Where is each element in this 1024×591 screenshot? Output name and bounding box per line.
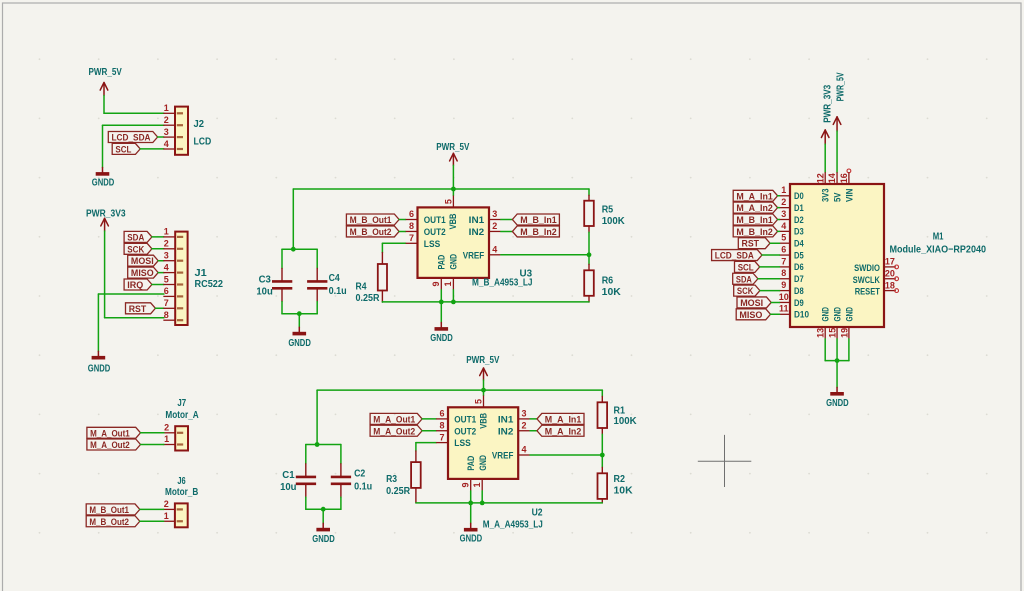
svg-text:PWR_3V3: PWR_3V3 [86,209,126,220]
wire C3 top lead [281,249,283,268]
label SCK (M1) [734,285,760,296]
capacitor C1 10u [280,464,316,497]
wire SCK to M1 pin [760,290,780,292]
wire gnd bus (U3) [382,301,589,303]
wire to GNDD (U3) [440,302,442,323]
svg-text:D1: D1 [794,203,804,214]
svg-text:R6: R6 [602,275,614,286]
svg-text:J1: J1 [195,268,208,279]
svg-text:0.1u: 0.1u [354,482,372,493]
svg-text:C4: C4 [329,273,341,284]
resistor R1 100K [598,397,638,435]
label SCK (J1) [124,243,152,254]
svg-text:M_A_A4953_LJ: M_A_A4953_LJ [483,520,543,531]
wire J1 pin 6 to GNDD [98,294,163,351]
label MISO (J1) [128,267,159,278]
svg-text:D3: D3 [794,227,804,238]
svg-text:3: 3 [781,209,786,219]
connector J6 Motor_B [163,476,198,527]
op-amp U2 M_A_A4953_LJ [436,395,543,530]
svg-text:2: 2 [164,499,169,509]
svg-text:D10: D10 [794,310,809,321]
svg-text:M_B_A4953_LJ: M_B_A4953_LJ [472,277,533,288]
svg-text:MOSI: MOSI [740,298,763,308]
wire PWR_5V to M1 pin 14 [836,131,838,172]
svg-text:5: 5 [443,199,453,204]
svg-text:PAD: PAD [466,456,477,471]
svg-text:GNDD: GNDD [88,364,111,375]
junction C3 C4 top [291,247,296,252]
svg-text:OUT2: OUT2 [454,426,476,437]
svg-text:3: 3 [521,409,526,419]
svg-text:10: 10 [779,292,789,302]
capacitor C2 0.1u [331,464,372,497]
wire M_B_Out2 to OUT2 [399,230,406,232]
svg-text:100K: 100K [614,416,638,427]
svg-text:9: 9 [781,280,786,290]
wire M_A_Out2 to J7 pin 1 [141,444,164,446]
svg-text:GNDD: GNDD [826,398,849,409]
wire C3 bottom lead [281,302,283,314]
svg-text:LCD: LCD [194,137,212,148]
label SDA (J1) [124,231,152,242]
power flag PWR_5V (U3) [436,142,469,165]
svg-text:Motor_A: Motor_A [165,410,198,421]
svg-text:C2: C2 [354,469,366,480]
label IRQ (J1) [124,279,152,290]
label SDA (M1) [733,273,758,284]
module M1 Module_XIAO−RP2040 [779,172,987,339]
svg-text:D6: D6 [794,262,804,273]
svg-text:4: 4 [164,262,169,272]
svg-text:11: 11 [779,304,789,314]
svg-text:1: 1 [164,103,169,113]
svg-text:M_B_In1: M_B_In1 [520,215,557,225]
svg-text:VREF: VREF [463,250,485,261]
label M_A_Out1 (U2) [370,413,422,424]
wire GND pin to gnd bus [452,290,454,302]
wire IN2 to M_B_In2 [501,230,513,232]
wire IN2 to M_A_In2 [530,430,537,432]
svg-text:PWR_5V: PWR_5V [89,67,122,78]
wire gnd bus (U2) [416,502,602,504]
svg-text:0.1u: 0.1u [329,286,347,297]
junction C3 C4 gnd [297,311,302,316]
wire SCL to J2 pin 4 [140,148,164,150]
op-amp U3 M_B_A4953_LJ [406,196,533,290]
svg-text:9: 9 [431,281,441,286]
label M_B_Out1 (J6) [86,504,140,515]
svg-text:PWR_5V: PWR_5V [835,72,846,101]
svg-text:5: 5 [781,233,786,243]
svg-text:2: 2 [781,197,786,207]
no-connect VIN pin 16 [847,169,851,173]
svg-text:RST: RST [129,304,147,314]
svg-text:18: 18 [885,280,895,290]
junction VREF R5 R6 [587,252,592,257]
svg-text:J6: J6 [177,476,186,487]
svg-text:SDA: SDA [736,274,752,284]
svg-text:D9: D9 [794,298,804,309]
svg-text:20: 20 [885,269,895,279]
svg-text:D0: D0 [794,191,804,202]
label SCL (M1) [735,261,760,272]
wire PWR_3V3 to M1 pin 12 [824,144,826,172]
svg-text:SWCLK: SWCLK [853,275,880,286]
wire PAD pin to gnd bus [440,290,442,302]
svg-text:13: 13 [816,328,826,338]
svg-text:PWR_3V3: PWR_3V3 [822,84,833,122]
svg-text:LSS: LSS [424,239,440,250]
wire PWR_5V bus (U3) [293,188,589,190]
label MOSI (J1) [128,255,159,266]
label MISO (M1) [736,309,770,320]
svg-text:100K: 100K [602,216,626,227]
svg-text:4: 4 [781,221,786,231]
svg-text:7: 7 [164,298,169,308]
svg-text:1: 1 [164,227,169,237]
resistor R2 10K [598,467,634,503]
ground GNDD (M1) [826,387,849,408]
svg-text:M_A_In1: M_A_In1 [545,414,582,424]
svg-text:10u: 10u [256,286,272,297]
wire C4 bottom lead [316,302,318,314]
wire C4 top lead [316,249,318,268]
svg-text:GNDD: GNDD [460,534,483,545]
label M_A_Out2 (U2) [370,425,422,436]
junction PAD gnd [439,300,444,305]
ground GNDD (J1) [88,351,111,374]
label M_B_Out1 (U3) [346,214,399,225]
wire C1 C2 bottom bus [306,508,341,510]
no-connect RESET pin 18 [895,289,899,293]
svg-text:4: 4 [492,245,497,255]
wire PWR_5V stem to bus [452,165,454,195]
svg-text:R4: R4 [356,281,367,292]
ground GNDD (U2) [460,523,483,544]
wire R5 to VREF [588,232,590,255]
wire SCK to J1 pin [152,248,164,250]
label M_B_In1 (U3) [512,214,559,225]
svg-text:2: 2 [164,239,169,249]
svg-text:MISO: MISO [131,268,154,278]
svg-text:8: 8 [409,221,414,231]
svg-text:D8: D8 [794,286,804,297]
svg-text:8: 8 [164,310,169,320]
svg-text:SCK: SCK [127,244,144,254]
svg-text:M_A_In2: M_A_In2 [545,426,582,436]
svg-text:6: 6 [409,209,414,219]
wire to GNDD (C3 C4) [298,314,300,328]
label M_B_In2 (M1) [733,226,777,237]
wire M_B_Out1 to OUT1 [399,219,406,221]
svg-text:PWR_5V: PWR_5V [466,355,499,366]
svg-text:0.25R: 0.25R [386,486,411,497]
svg-text:OUT2: OUT2 [424,227,446,238]
wire R1 to VREF [601,434,603,455]
svg-text:2: 2 [164,115,169,125]
wire M1 pin 19 to gnd bus [848,339,850,361]
svg-text:GND: GND [821,307,832,322]
svg-text:1: 1 [781,185,786,195]
svg-text:8: 8 [439,420,444,430]
svg-text:IN2: IN2 [469,227,485,238]
svg-text:2: 2 [521,420,526,430]
svg-text:D4: D4 [794,239,804,250]
wire SDA to J1 pin [152,236,164,238]
power flag PWR_5V (M1) [833,72,846,131]
wire VREF to R2 [601,455,603,467]
resistor R3 0.25R [386,451,421,503]
wire R4 bottom to gnd bus [381,301,383,303]
svg-text:M_B_In2: M_B_In2 [520,227,557,237]
svg-text:GND: GND [448,254,459,270]
svg-text:VBB: VBB [478,413,489,429]
junction M1 gnd [835,358,840,363]
svg-text:M_B_In1: M_B_In1 [736,215,772,225]
wire M_B_In2 to M1 pin [778,230,780,232]
capacitor C4 0.1u [307,268,347,301]
svg-text:8: 8 [781,268,786,278]
label M_A_In2 (U2) [537,425,584,436]
connector J2 LCD [163,103,211,155]
wire M_B_Out1 to J6 pin 2 [140,508,164,510]
svg-text:10u: 10u [280,482,296,493]
wire VREF to R6 [588,255,590,264]
svg-text:C3: C3 [259,275,272,286]
label LCD_SDA (M1) [712,250,762,261]
wire LCD_SDA to M1 pin [762,254,780,256]
wire RST to M1 pin [770,242,780,244]
svg-text:9: 9 [460,482,470,487]
label M_A_In1 (M1) [733,190,777,201]
svg-text:M1: M1 [933,232,944,243]
wire MISO to J1 pin [158,272,164,274]
svg-text:M_A_Out2: M_A_Out2 [90,440,130,450]
wire SCL to M1 pin [760,266,780,268]
svg-text:SCK: SCK [737,286,754,296]
wire IRQ to J1 pin [152,284,164,286]
svg-text:3: 3 [164,127,169,137]
crosshair cursor [698,435,752,487]
svg-text:7: 7 [409,233,414,243]
no-connect SWCLK pin 20 [895,277,899,281]
svg-text:D5: D5 [794,250,804,261]
svg-text:Motor_B: Motor_B [165,487,198,498]
power flag PWR_5V (J2) [89,67,122,95]
wire C2 bottom lead [340,497,342,509]
ground GNDD (C3 C4) [288,327,311,349]
label M_A_In2 (M1) [733,202,777,213]
wire IN1 to M_A_In1 [530,418,537,420]
label M_B_In1 (M1) [733,214,777,225]
wire C3 C4 top bus [282,248,317,250]
junction GND pin gnd [451,300,456,305]
svg-text:D7: D7 [794,274,804,285]
svg-text:M_A_In2: M_A_In2 [736,203,772,213]
label RST (J1) [126,303,156,314]
svg-text:5: 5 [164,274,169,284]
wire IN1 to M_B_In1 [501,219,513,221]
svg-text:2: 2 [164,423,169,433]
ground GNDD (U3) [430,323,453,345]
svg-text:7: 7 [781,256,786,266]
svg-text:LCD_SDA: LCD_SDA [112,133,151,143]
svg-text:MOSI: MOSI [131,256,154,266]
wire LSS to R3 [416,443,436,451]
wire to GNDD (U2) [470,503,472,523]
svg-text:IN1: IN1 [469,215,485,226]
label MOSI (M1) [737,297,771,308]
junction VBB node (U2) [481,388,486,393]
svg-text:1: 1 [472,482,482,487]
svg-text:LCD_SDA: LCD_SDA [715,251,754,261]
power flag PWR_3V3 (J1) [86,209,126,231]
wire MISO to M1 pin [771,313,780,315]
svg-text:M_A_Out1: M_A_Out1 [90,428,130,438]
svg-text:VBB: VBB [448,213,459,229]
svg-text:16: 16 [839,173,849,183]
junction GND pin gnd (U2) [480,501,485,506]
svg-text:C1: C1 [282,470,295,481]
svg-text:RESET: RESET [855,287,880,298]
power flag PWR_3V3 (M1) [821,84,833,144]
wire C1 top lead [305,445,307,464]
svg-text:GNDD: GNDD [430,333,453,344]
wire LSS to R4 [382,243,405,252]
svg-text:6: 6 [439,409,444,419]
wire C2 top lead [340,445,342,464]
svg-text:R2: R2 [614,474,626,485]
svg-text:D2: D2 [794,215,804,226]
label RST (M1) [738,238,770,249]
wire LCD_SDA to J2 pin 3 [158,136,164,138]
svg-text:M_A_In1: M_A_In1 [736,191,772,201]
svg-text:R1: R1 [614,405,626,416]
svg-text:GND: GND [832,307,843,322]
svg-text:IRQ: IRQ [127,280,143,290]
wire PWR_5V stem to bus (U2) [483,380,485,395]
ground GNDD (C1 C2) [312,523,335,545]
power flag PWR_5V (U2) [466,355,499,380]
svg-text:3: 3 [164,251,169,261]
svg-text:GNDD: GNDD [92,178,115,189]
wire M_A_Out2 to OUT2 (U2) [422,430,436,432]
junction C1 C2 gnd [321,507,326,512]
svg-text:10K: 10K [602,287,622,298]
wire M1 gnd bus [825,360,849,362]
svg-text:IN1: IN1 [498,414,514,425]
wire M_A_Out1 to OUT1 (U2) [422,418,436,420]
wire PAD pin to gnd bus (U2) [470,491,472,503]
wire GND pin to gnd bus (U2) [481,491,483,503]
svg-text:4: 4 [521,445,526,455]
svg-text:GND: GND [844,307,855,322]
wire M_B_Out2 to J6 pin 1 [140,520,164,522]
svg-text:4: 4 [164,139,169,149]
svg-text:10K: 10K [614,486,634,497]
svg-text:19: 19 [839,328,849,338]
svg-text:M_A_Out2: M_A_Out2 [373,426,415,436]
wire VREF net (U3) [501,254,589,256]
connector J1 RC522 [163,227,223,325]
label M_B_Out2 (U3) [346,226,399,237]
svg-text:Module_XIAO−RP2040: Module_XIAO−RP2040 [890,244,987,255]
wire C3 C4 bottom bus [282,313,317,315]
svg-text:SCL: SCL [115,144,131,154]
svg-text:14: 14 [827,173,837,183]
wire MOSI to J1 pin [158,260,164,262]
svg-text:3V3: 3V3 [821,189,832,203]
svg-text:7: 7 [439,432,444,442]
svg-text:IN2: IN2 [498,426,514,437]
svg-text:U2: U2 [532,508,543,519]
wire SDA to M1 pin [758,278,780,280]
connector J7 Motor_A [163,398,198,450]
label M_A_In1 (U2) [537,413,584,424]
svg-text:M_B_Out1: M_B_Out1 [89,505,129,515]
svg-text:GNDD: GNDD [288,338,311,349]
svg-text:M_A_Out1: M_A_Out1 [373,414,415,424]
wire to GNDD (M1) [836,361,838,388]
wire M_B_In1 to M1 pin [778,219,780,221]
svg-text:15: 15 [827,328,837,338]
label M_B_Out2 (J6) [86,516,140,527]
svg-text:6: 6 [781,244,786,254]
svg-text:RST: RST [742,239,760,249]
wire M1 pin 15 to gnd bus [836,339,838,361]
junction VREF R1 R2 [600,453,605,458]
wire C1 C2 top bus [306,444,341,446]
wire J2 pin 2 to GNDD [103,125,164,167]
wire bus to C3 C4 [292,189,294,249]
svg-text:PWR_5V: PWR_5V [436,142,469,153]
svg-text:17: 17 [885,257,895,267]
wire bus to R5 [588,189,590,195]
label SCL (J2 pin 4) [112,143,140,154]
wire PWR_5V to J2 pin 1 [104,96,164,114]
wire C1 bottom lead [305,497,307,509]
svg-text:GND: GND [478,455,489,471]
svg-text:VIN: VIN [844,188,855,202]
wire PWR_5V bus (U2) [317,389,602,391]
svg-text:OUT1: OUT1 [454,414,477,425]
wire M1 pin 13 to gnd bus [824,339,826,361]
label M_A_Out2 (J7) [87,439,141,450]
svg-text:1: 1 [164,434,169,444]
svg-text:1: 1 [164,511,169,521]
wire M_A_Out1 to J7 pin 2 [141,432,164,434]
wire M_A_In2 to M1 pin [778,207,780,209]
wire M_A_In1 to M1 pin [778,195,780,197]
svg-text:J7: J7 [177,398,186,409]
junction C1 C2 top [315,442,320,447]
label M_B_In2 (U3) [512,226,559,237]
svg-text:J2: J2 [194,119,205,130]
wire MOSI to M1 pin [771,301,779,303]
svg-text:R3: R3 [386,474,397,485]
svg-text:M_B_In2: M_B_In2 [736,227,772,237]
svg-text:0.25R: 0.25R [356,293,381,304]
svg-text:M_B_Out2: M_B_Out2 [89,517,129,527]
label LCD_SDA (J2 pin 3) [108,132,157,143]
svg-text:OUT1: OUT1 [424,215,447,226]
label M_A_Out1 (J7) [87,427,141,438]
svg-text:SWDIO: SWDIO [854,263,880,274]
resistor R6 10K [584,264,621,302]
svg-text:12: 12 [815,173,825,183]
junction VBB node (U3) [451,187,456,192]
